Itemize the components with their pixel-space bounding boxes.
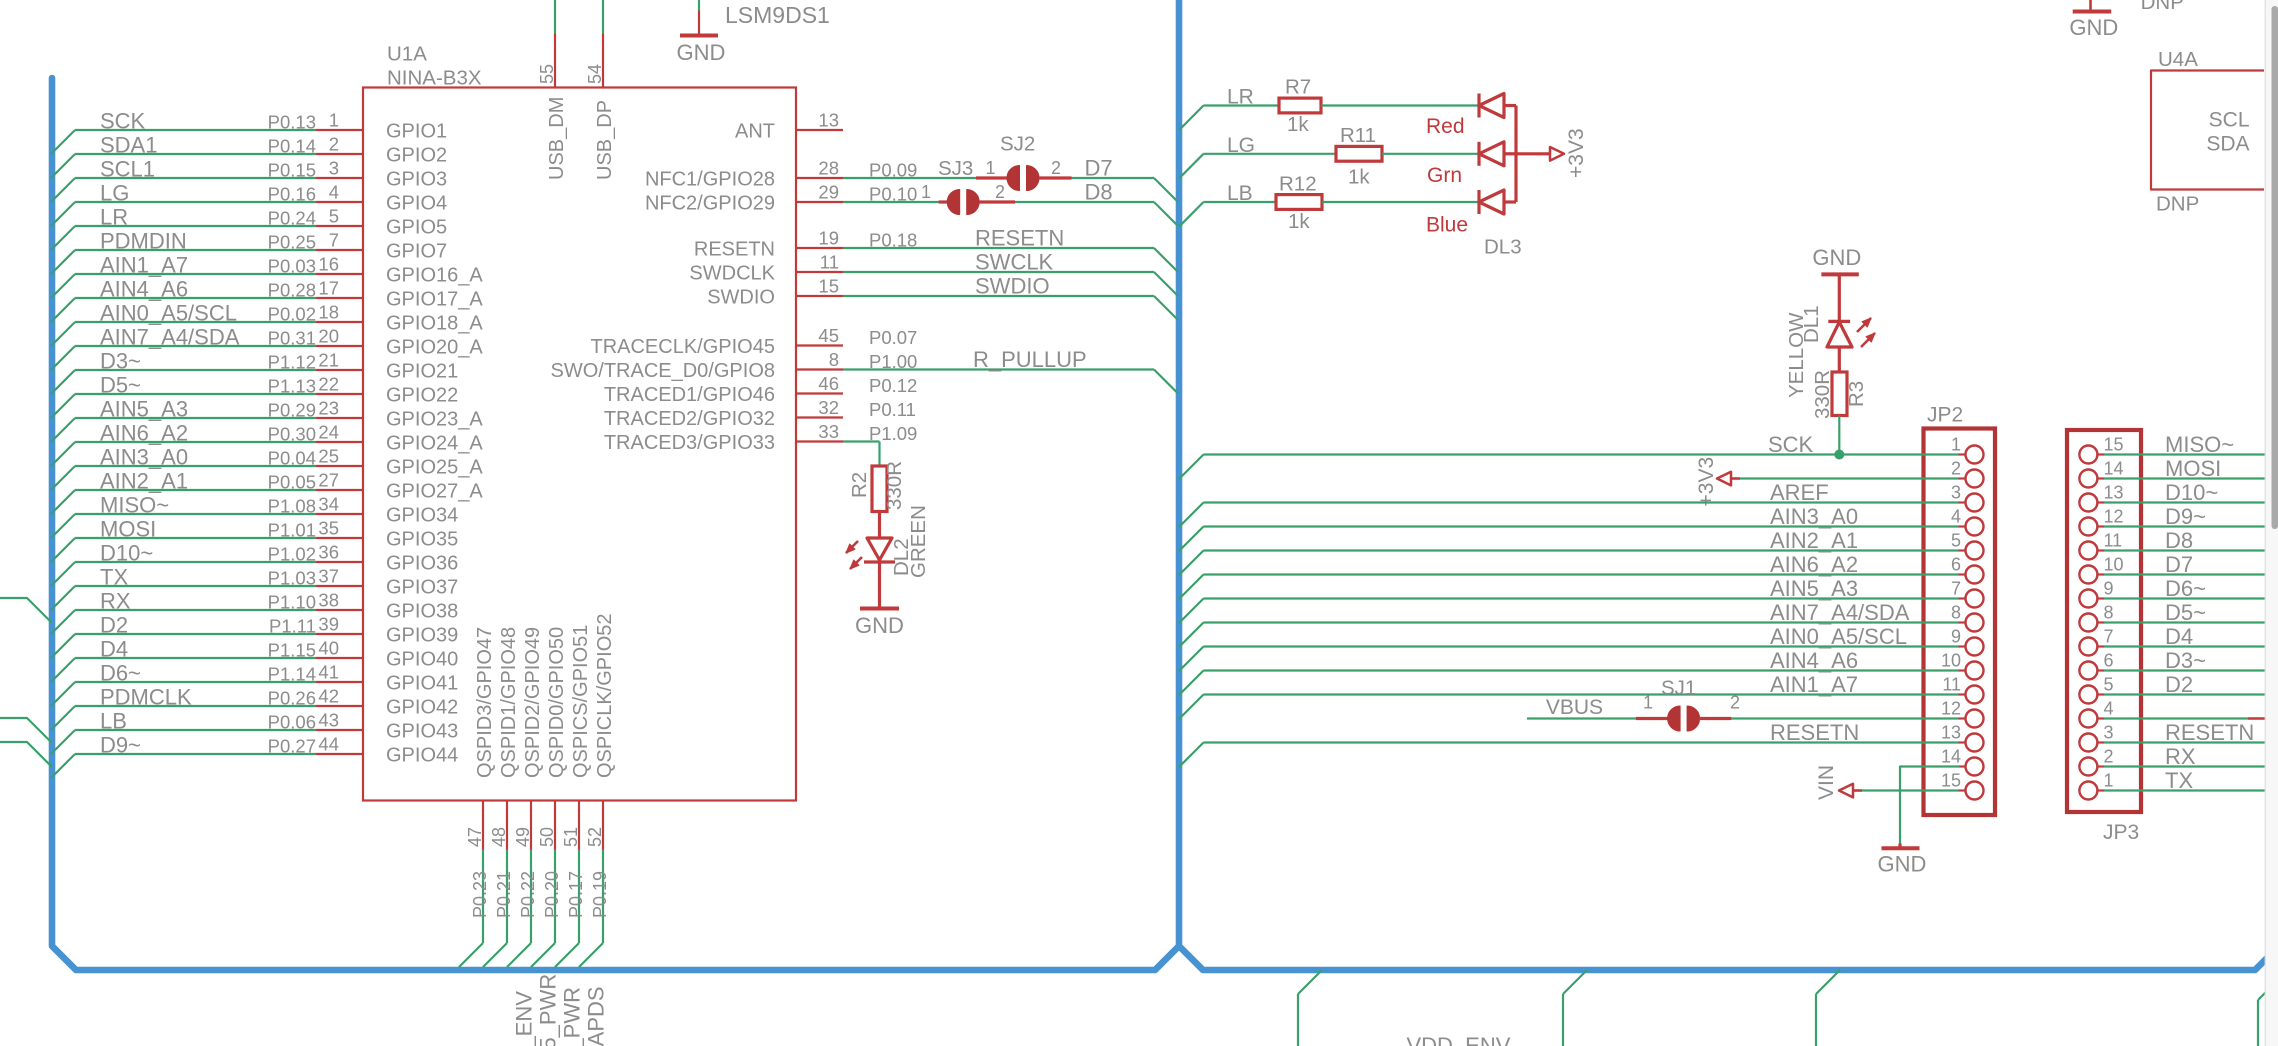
svg-text:12: 12: [2104, 507, 2124, 527]
svg-text:13: 13: [1941, 723, 1961, 743]
svg-text:R12: R12: [1279, 173, 1317, 196]
svg-text:13: 13: [818, 110, 839, 131]
svg-text:P1.15: P1.15: [268, 640, 316, 661]
svg-text:P0.29: P0.29: [268, 400, 316, 421]
svg-text:D8: D8: [2165, 528, 2193, 553]
svg-text:7: 7: [2104, 627, 2114, 647]
svg-text:GPIO40: GPIO40: [386, 649, 458, 671]
svg-text:51: 51: [561, 827, 581, 847]
svg-text:P1.12: P1.12: [268, 352, 316, 373]
svg-text:GPIO7: GPIO7: [386, 241, 447, 263]
svg-text:1: 1: [329, 110, 339, 131]
svg-text:1: 1: [921, 182, 931, 202]
svg-text:AIN0_A5/SCL: AIN0_A5/SCL: [100, 301, 237, 326]
svg-text:GPIO17_A: GPIO17_A: [386, 289, 483, 311]
svg-text:QSPID0/GPIO50: QSPID0/GPIO50: [546, 627, 568, 778]
svg-text:P0.23: P0.23: [470, 871, 490, 918]
svg-text:8: 8: [829, 349, 839, 370]
svg-text:9: 9: [1951, 627, 1961, 647]
svg-text:+3V3: +3V3: [1695, 457, 1718, 507]
svg-text:D7: D7: [1085, 156, 1113, 181]
svg-text:GPIO41: GPIO41: [386, 673, 458, 695]
svg-text:D5~: D5~: [100, 373, 141, 398]
svg-text:PDMDIN: PDMDIN: [100, 229, 187, 254]
svg-text:SDA1: SDA1: [100, 133, 157, 158]
svg-text:NINA-B3X: NINA-B3X: [387, 67, 482, 90]
svg-text:RESETN: RESETN: [1770, 720, 1859, 745]
svg-text:MISO~: MISO~: [100, 493, 169, 518]
svg-text:GPIO43: GPIO43: [386, 721, 458, 743]
svg-text:47: 47: [465, 827, 485, 847]
svg-text:GPIO4: GPIO4: [386, 193, 447, 215]
svg-text:P0.21: P0.21: [494, 871, 514, 918]
svg-text:48: 48: [489, 827, 509, 847]
svg-text:P1.10: P1.10: [268, 592, 316, 613]
svg-text:D8: D8: [1085, 180, 1113, 205]
svg-text:GPIO24_A: GPIO24_A: [386, 433, 483, 455]
svg-text:AIN0_A5/SCL: AIN0_A5/SCL: [1770, 624, 1907, 649]
svg-text:9: 9: [2104, 579, 2114, 599]
svg-text:AIN3_A0: AIN3_A0: [1770, 504, 1858, 529]
svg-text:SJ1: SJ1: [1661, 677, 1696, 700]
svg-text:4: 4: [1951, 507, 1961, 527]
svg-text:D2: D2: [2165, 672, 2193, 697]
svg-text:QSPID1/GPIO48: QSPID1/GPIO48: [498, 627, 520, 778]
svg-text:JP2: JP2: [1927, 404, 1963, 427]
svg-text:LG: LG: [100, 181, 129, 206]
svg-text:SCL: SCL: [2209, 109, 2250, 132]
svg-text:P0.02: P0.02: [268, 304, 316, 325]
svg-text:GPIO1: GPIO1: [386, 121, 447, 143]
svg-text:P0.20: P0.20: [542, 871, 562, 918]
svg-text:QSPID3/GPIO47: QSPID3/GPIO47: [474, 627, 496, 778]
svg-text:AIN1_A7: AIN1_A7: [1770, 672, 1858, 697]
svg-text:RESETN: RESETN: [2165, 720, 2254, 745]
svg-text:33: 33: [818, 421, 839, 442]
svg-text:14: 14: [1941, 747, 1961, 767]
svg-text:29: 29: [818, 182, 839, 203]
svg-text:GPIO20_A: GPIO20_A: [386, 337, 483, 359]
svg-text:21: 21: [318, 350, 339, 371]
svg-text:D4: D4: [100, 637, 128, 662]
svg-text:40: 40: [318, 638, 339, 659]
svg-text:3: 3: [2104, 723, 2114, 743]
svg-text:GND: GND: [677, 40, 726, 65]
svg-text:GPIO21: GPIO21: [386, 361, 458, 383]
svg-text:20: 20: [318, 326, 339, 347]
svg-text:4: 4: [2104, 699, 2114, 719]
svg-text:4: 4: [329, 182, 339, 203]
svg-text:2: 2: [329, 134, 339, 155]
svg-text:NFC1/GPIO28: NFC1/GPIO28: [645, 169, 775, 191]
svg-text:VDD_APDS: VDD_APDS: [584, 986, 609, 1046]
svg-text:6: 6: [2104, 651, 2114, 671]
svg-text:D9~: D9~: [100, 733, 141, 758]
svg-text:VDD_ENV: VDD_ENV: [1407, 1033, 1511, 1046]
svg-text:15: 15: [2104, 435, 2124, 455]
svg-text:LSM9DS1: LSM9DS1: [725, 2, 830, 28]
svg-text:AIN4_A6: AIN4_A6: [1770, 648, 1858, 673]
svg-text:P0.31: P0.31: [268, 328, 316, 349]
svg-text:DNP: DNP: [2156, 193, 2199, 216]
svg-text:3: 3: [329, 158, 339, 179]
svg-text:P0.27: P0.27: [268, 736, 316, 757]
svg-text:45: 45: [818, 325, 839, 346]
svg-text:AIN2_A1: AIN2_A1: [1770, 528, 1858, 553]
svg-text:P1.08: P1.08: [268, 496, 316, 517]
svg-text:LG: LG: [1227, 134, 1255, 157]
svg-text:SJ2: SJ2: [1000, 133, 1035, 156]
svg-text:36: 36: [318, 542, 339, 563]
svg-text:GPIO35: GPIO35: [386, 529, 458, 551]
svg-text:P0.06: P0.06: [268, 712, 316, 733]
svg-text:JP3: JP3: [2103, 821, 2139, 844]
svg-text:11: 11: [820, 252, 839, 273]
svg-text:18: 18: [318, 302, 339, 323]
svg-text:1: 1: [2104, 771, 2114, 791]
svg-text:P1.11: P1.11: [269, 616, 316, 637]
svg-text:U4A: U4A: [2158, 48, 2198, 71]
svg-text:GPIO23_A: GPIO23_A: [386, 409, 483, 431]
svg-text:SWO/TRACE_D0/GPIO8: SWO/TRACE_D0/GPIO8: [551, 360, 776, 382]
svg-text:P0.26: P0.26: [268, 688, 316, 709]
svg-text:D5~: D5~: [2165, 600, 2206, 625]
svg-text:24: 24: [318, 422, 339, 443]
svg-text:RESETN: RESETN: [975, 226, 1064, 251]
svg-text:P1.02: P1.02: [268, 544, 316, 565]
svg-text:15: 15: [818, 276, 839, 297]
svg-text:P0.12: P0.12: [869, 375, 917, 396]
svg-text:3: 3: [1951, 483, 1961, 503]
svg-text:P1.03: P1.03: [268, 568, 316, 589]
svg-text:SCK: SCK: [1768, 432, 1814, 457]
svg-text:P0.15: P0.15: [268, 160, 316, 181]
svg-text:AIN6_A2: AIN6_A2: [1770, 552, 1858, 577]
svg-text:6: 6: [1951, 555, 1961, 575]
svg-text:25: 25: [318, 446, 339, 467]
svg-text:GPIO36: GPIO36: [386, 553, 458, 575]
svg-text:AIN6_A2: AIN6_A2: [100, 421, 188, 446]
svg-text:GPIO37: GPIO37: [386, 577, 458, 599]
svg-text:TX: TX: [100, 565, 128, 590]
svg-text:GPIO25_A: GPIO25_A: [386, 457, 483, 479]
svg-text:P0.16: P0.16: [268, 184, 316, 205]
svg-text:LB: LB: [1227, 182, 1253, 205]
svg-text:GPIO2: GPIO2: [386, 145, 447, 167]
svg-text:GND: GND: [1878, 852, 1927, 877]
svg-text:11: 11: [1942, 675, 1961, 695]
svg-text:TRACED3/GPIO33: TRACED3/GPIO33: [604, 432, 775, 454]
svg-text:16: 16: [318, 254, 339, 275]
svg-text:2: 2: [995, 182, 1005, 202]
svg-text:LR: LR: [1227, 86, 1254, 109]
svg-text:ANT: ANT: [735, 121, 775, 143]
svg-text:R7: R7: [1285, 76, 1311, 99]
svg-text:49: 49: [513, 827, 533, 847]
svg-text:10: 10: [2104, 555, 2124, 575]
svg-text:USB_DP: USB_DP: [594, 100, 616, 180]
svg-text:R_PULLUP: R_PULLUP: [973, 347, 1087, 372]
svg-text:TX: TX: [2165, 768, 2193, 793]
svg-text:D6~: D6~: [100, 661, 141, 686]
svg-text:330R: 330R: [1811, 370, 1834, 419]
svg-text:GREEN: GREEN: [907, 505, 930, 578]
svg-text:5: 5: [2104, 675, 2114, 695]
svg-text:VDD_PWR: VDD_PWR: [560, 987, 585, 1046]
svg-text:D3~: D3~: [100, 349, 141, 374]
svg-text:P0.24: P0.24: [268, 208, 316, 229]
svg-text:RX: RX: [100, 589, 131, 614]
svg-text:MOSI: MOSI: [100, 517, 156, 542]
svg-text:+3V3: +3V3: [1565, 128, 1588, 178]
svg-text:AIN1_A7: AIN1_A7: [100, 253, 188, 278]
svg-text:Red: Red: [1426, 115, 1465, 138]
svg-text:QSPICLK/GPIO52: QSPICLK/GPIO52: [594, 613, 616, 778]
svg-text:GPIO16_A: GPIO16_A: [386, 265, 483, 287]
svg-text:P0.14: P0.14: [268, 136, 316, 157]
svg-text:5: 5: [1951, 531, 1961, 551]
svg-text:54: 54: [585, 64, 605, 84]
svg-text:AIN4_A6: AIN4_A6: [100, 277, 188, 302]
svg-text:D3~: D3~: [2165, 648, 2206, 673]
svg-text:AIN7_A4/SDA: AIN7_A4/SDA: [1770, 600, 1910, 625]
svg-text:TRACED1/GPIO46: TRACED1/GPIO46: [604, 384, 775, 406]
svg-text:SCK: SCK: [100, 109, 146, 134]
svg-text:RESETN: RESETN: [694, 239, 775, 261]
svg-text:AIN7_A4/SDA: AIN7_A4/SDA: [100, 325, 240, 350]
svg-text:VIN: VIN: [1815, 765, 1838, 800]
svg-text:NFC2/GPIO29: NFC2/GPIO29: [645, 193, 775, 215]
svg-text:P0.11: P0.11: [869, 399, 916, 420]
svg-text:46: 46: [818, 373, 839, 394]
svg-text:1k: 1k: [1348, 166, 1370, 189]
svg-text:SWDCLK: SWDCLK: [689, 263, 775, 285]
svg-text:QSPICS/GPIO51: QSPICS/GPIO51: [570, 625, 592, 778]
svg-text:SWCLK: SWCLK: [975, 250, 1054, 275]
svg-text:QSPID2/GPIO49: QSPID2/GPIO49: [522, 627, 544, 778]
svg-text:39: 39: [318, 614, 339, 635]
svg-text:P0.04: P0.04: [268, 448, 316, 469]
svg-text:SDA: SDA: [2206, 133, 2249, 156]
svg-text:P0.05: P0.05: [268, 472, 316, 493]
svg-text:GPIO34: GPIO34: [386, 505, 458, 527]
svg-text:5: 5: [329, 206, 339, 227]
svg-text:P0.19: P0.19: [590, 871, 610, 918]
svg-text:P0.28: P0.28: [268, 280, 316, 301]
svg-text:19: 19: [818, 228, 839, 249]
svg-text:P1.13: P1.13: [268, 376, 316, 397]
svg-text:VDD_ENV: VDD_ENV: [512, 991, 537, 1046]
svg-text:34: 34: [318, 494, 339, 515]
svg-text:GPIO27_A: GPIO27_A: [386, 481, 483, 503]
svg-text:P0.13: P0.13: [268, 112, 316, 133]
svg-text:GPIO22: GPIO22: [386, 385, 458, 407]
svg-text:Blue: Blue: [1426, 214, 1468, 237]
svg-text:PDMCLK: PDMCLK: [100, 685, 192, 710]
svg-text:7: 7: [329, 230, 339, 251]
svg-text:GPIO38: GPIO38: [386, 601, 458, 623]
svg-text:44: 44: [318, 734, 339, 755]
svg-text:AREF: AREF: [1770, 480, 1829, 505]
svg-text:55: 55: [537, 64, 557, 84]
svg-text:DL1: DL1: [1800, 305, 1823, 343]
svg-text:22: 22: [318, 374, 339, 395]
svg-text:12: 12: [1941, 699, 1961, 719]
svg-text:VBUS: VBUS: [1546, 696, 1603, 719]
svg-text:VDD5_PWR: VDD5_PWR: [536, 974, 561, 1046]
svg-text:SWDIO: SWDIO: [975, 274, 1050, 299]
svg-text:11: 11: [2104, 531, 2123, 551]
svg-text:GPIO42: GPIO42: [386, 697, 458, 719]
svg-text:17: 17: [318, 278, 339, 299]
svg-text:D10~: D10~: [2165, 480, 2218, 505]
svg-text:7: 7: [1951, 579, 1961, 599]
svg-text:23: 23: [318, 398, 339, 419]
svg-text:TRACECLK/GPIO45: TRACECLK/GPIO45: [590, 336, 775, 358]
svg-text:27: 27: [318, 470, 339, 491]
svg-text:38: 38: [318, 590, 339, 611]
svg-text:USB_DM: USB_DM: [546, 97, 568, 180]
svg-text:P1.14: P1.14: [268, 664, 316, 685]
svg-text:R3: R3: [1845, 381, 1868, 407]
svg-text:GND: GND: [2069, 15, 2118, 40]
svg-text:42: 42: [318, 686, 339, 707]
svg-text:LB: LB: [100, 709, 127, 734]
svg-text:GND: GND: [855, 613, 904, 638]
svg-text:P0.25: P0.25: [268, 232, 316, 253]
svg-text:P0.07: P0.07: [869, 327, 917, 348]
svg-text:D10~: D10~: [100, 541, 153, 566]
svg-text:GND: GND: [1812, 245, 1861, 270]
svg-text:8: 8: [1951, 603, 1961, 623]
svg-text:AIN5_A3: AIN5_A3: [100, 397, 188, 422]
svg-text:GPIO39: GPIO39: [386, 625, 458, 647]
svg-text:DNP: DNP: [2141, 0, 2184, 14]
svg-text:GPIO5: GPIO5: [386, 217, 447, 239]
svg-text:SWDIO: SWDIO: [707, 287, 775, 309]
svg-text:AIN3_A0: AIN3_A0: [100, 445, 188, 470]
svg-text:35: 35: [318, 518, 339, 539]
svg-text:D4: D4: [2165, 624, 2193, 649]
svg-text:15: 15: [1941, 771, 1961, 791]
svg-text:37: 37: [318, 566, 339, 587]
svg-text:41: 41: [318, 662, 339, 683]
svg-text:AIN5_A3: AIN5_A3: [1770, 576, 1858, 601]
svg-text:P0.22: P0.22: [518, 871, 538, 918]
svg-text:DL3: DL3: [1484, 236, 1522, 259]
svg-text:LR: LR: [100, 205, 128, 230]
svg-text:32: 32: [818, 397, 839, 418]
svg-text:1: 1: [985, 158, 995, 178]
svg-text:28: 28: [818, 158, 839, 179]
svg-text:1k: 1k: [1287, 113, 1309, 136]
svg-text:10: 10: [1941, 651, 1961, 671]
svg-text:330R: 330R: [883, 461, 906, 510]
svg-text:SCL1: SCL1: [100, 157, 155, 182]
svg-text:R2: R2: [848, 472, 871, 498]
svg-text:D7: D7: [2165, 552, 2193, 577]
svg-text:P1.01: P1.01: [268, 520, 316, 541]
svg-text:2: 2: [1951, 459, 1961, 479]
svg-text:AIN2_A1: AIN2_A1: [100, 469, 188, 494]
svg-text:MISO~: MISO~: [2165, 432, 2234, 457]
svg-text:1k: 1k: [1288, 210, 1310, 233]
svg-text:GPIO3: GPIO3: [386, 169, 447, 191]
svg-text:D9~: D9~: [2165, 504, 2206, 529]
svg-text:U1A: U1A: [387, 43, 427, 66]
svg-text:TRACED2/GPIO32: TRACED2/GPIO32: [604, 408, 775, 430]
svg-text:43: 43: [318, 710, 339, 731]
svg-text:GPIO18_A: GPIO18_A: [386, 313, 483, 335]
svg-text:MOSI: MOSI: [2165, 456, 2221, 481]
svg-text:D6~: D6~: [2165, 576, 2206, 601]
svg-text:50: 50: [537, 827, 557, 847]
svg-text:8: 8: [2104, 603, 2114, 623]
svg-text:R11: R11: [1340, 124, 1376, 147]
svg-text:RX: RX: [2165, 744, 2196, 769]
svg-text:1: 1: [1643, 693, 1653, 713]
svg-text:14: 14: [2104, 459, 2124, 479]
svg-text:52: 52: [585, 827, 605, 847]
svg-text:13: 13: [2104, 483, 2124, 503]
svg-text:P0.03: P0.03: [268, 256, 316, 277]
svg-text:D2: D2: [100, 613, 128, 638]
svg-text:2: 2: [2104, 747, 2114, 767]
svg-text:Grn: Grn: [1427, 164, 1462, 187]
svg-text:P0.17: P0.17: [566, 871, 586, 918]
svg-text:P0.30: P0.30: [268, 424, 316, 445]
svg-text:GPIO44: GPIO44: [386, 745, 458, 767]
svg-text:2: 2: [1051, 158, 1061, 178]
svg-text:1: 1: [1951, 435, 1961, 455]
svg-text:2: 2: [1730, 693, 1740, 713]
svg-text:SJ3: SJ3: [938, 157, 973, 180]
